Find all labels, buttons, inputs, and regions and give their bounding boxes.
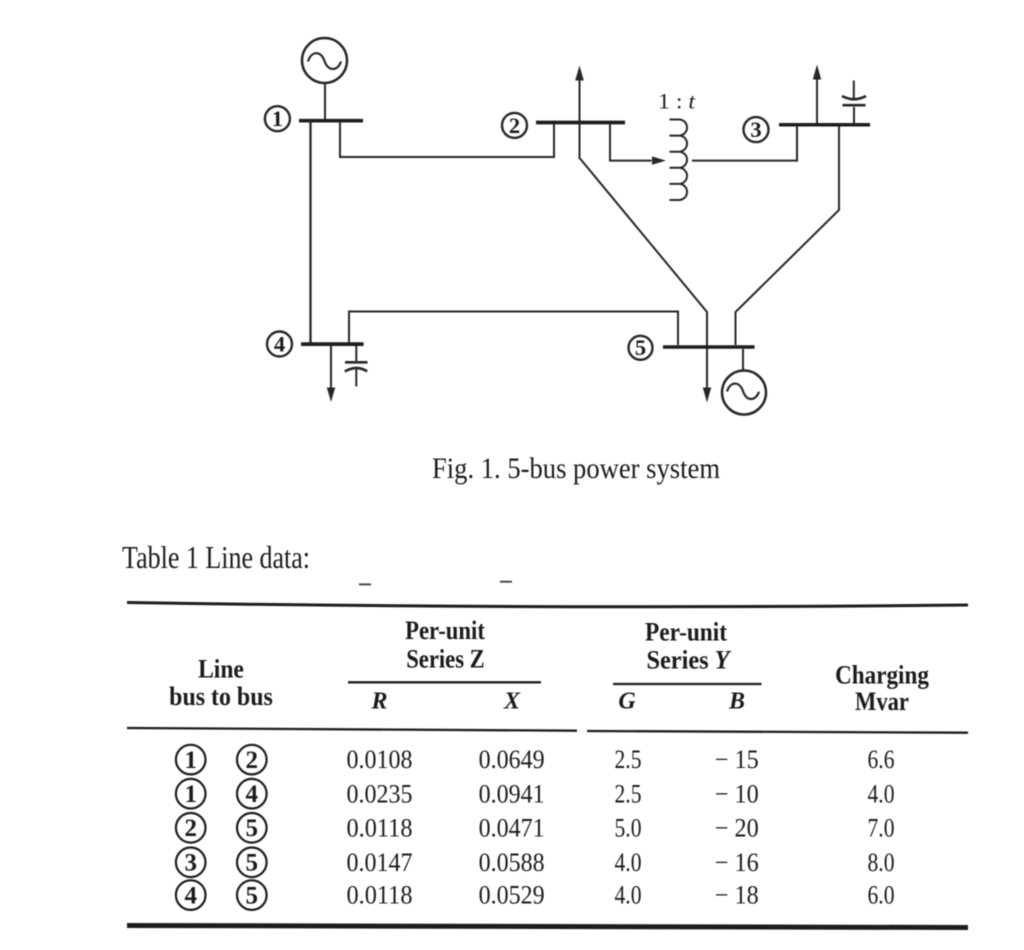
svg-text:6.0: 6.0 xyxy=(868,881,895,910)
table header text xyxy=(169,616,929,716)
svg-text:bus to bus: bus to bus xyxy=(169,682,273,711)
table top rule xyxy=(127,603,968,607)
svg-text:2: 2 xyxy=(246,747,259,774)
bus 1 bar xyxy=(299,119,363,123)
load arrow at bus 5 xyxy=(703,388,711,403)
svg-text:− 10: − 10 xyxy=(715,779,759,808)
svg-text:− 20: − 20 xyxy=(715,813,759,842)
svg-text:7.0: 7.0 xyxy=(868,813,895,842)
load arrow at bus 3 xyxy=(813,65,821,124)
svg-text:X: X xyxy=(503,689,521,715)
shunt capacitor at bus 4 xyxy=(345,346,368,387)
svg-text:R: R xyxy=(370,689,387,715)
svg-text:− 18: − 18 xyxy=(715,881,759,910)
svg-text:− 16: − 16 xyxy=(715,848,759,877)
svg-text:4.0: 4.0 xyxy=(868,779,895,808)
svg-text:0.0147: 0.0147 xyxy=(347,848,413,877)
wire line 2-5 (bus 2 diagonal down to bus 5) xyxy=(580,159,707,388)
node label circle bus 4 xyxy=(267,332,292,357)
table header rule left segment xyxy=(127,728,577,731)
svg-text:5: 5 xyxy=(635,335,646,360)
svg-text:0.0108: 0.0108 xyxy=(347,745,413,774)
table body bus-pair circles xyxy=(176,745,267,910)
svg-text:Per-unit: Per-unit xyxy=(405,616,485,645)
svg-text:Mvar: Mvar xyxy=(855,687,909,716)
svg-text:8.0: 8.0 xyxy=(868,848,895,877)
wire line 1-4 (bus 1 down to bus 4) xyxy=(309,121,311,343)
svg-text:2: 2 xyxy=(184,815,197,842)
svg-text:0.0118: 0.0118 xyxy=(347,881,413,910)
svg-text:3: 3 xyxy=(750,117,761,142)
stray scan dash right xyxy=(500,581,512,583)
bus 2 bar xyxy=(536,121,625,125)
svg-text:0.0588: 0.0588 xyxy=(479,848,545,877)
svg-text:B: B xyxy=(728,689,745,715)
svg-text:− 15: − 15 xyxy=(715,745,759,774)
svg-text:4: 4 xyxy=(274,331,285,356)
svg-text:4.0: 4.0 xyxy=(615,848,642,877)
Series Y underline xyxy=(613,683,762,685)
svg-text:3: 3 xyxy=(184,850,197,877)
svg-text:0.0118: 0.0118 xyxy=(347,813,413,842)
bus 5 bar xyxy=(663,345,755,349)
table header rule right segment xyxy=(587,731,968,733)
svg-text:1 : t: 1 : t xyxy=(658,89,696,114)
svg-text:Per-unit: Per-unit xyxy=(645,617,727,646)
svg-text:2.5: 2.5 xyxy=(615,745,642,774)
svg-text:4.0: 4.0 xyxy=(615,881,642,910)
table bottom rule xyxy=(127,926,968,928)
svg-text:Fig. 1. 5-bus power system: Fig. 1. 5-bus power system xyxy=(432,452,720,485)
bus 4 bar xyxy=(301,342,364,346)
wire line 3-5 (bus 3 down to bus 5) xyxy=(736,127,840,346)
table body text rows xyxy=(184,745,894,910)
wire line 1-2 (bus 1 to bus 2) xyxy=(340,121,554,157)
generator G5 at bus 5 xyxy=(722,349,766,415)
Series Z underline xyxy=(348,681,541,683)
wire generator G1 lead to bus 1 xyxy=(324,83,326,119)
svg-text:1: 1 xyxy=(184,781,197,808)
node label circle bus 2 xyxy=(502,113,527,138)
TABLE RULES xyxy=(127,582,968,928)
bus 3 bar xyxy=(779,123,870,127)
transformer T1 winding coil xyxy=(670,120,688,201)
SCHEMATIC: 5-bus power system one-line diagram xyxy=(265,38,870,415)
svg-text:2: 2 xyxy=(509,113,520,138)
svg-text:Series Z: Series Z xyxy=(406,644,485,673)
svg-text:0.0235: 0.0235 xyxy=(347,779,413,808)
stray scan dash left xyxy=(359,583,371,585)
svg-text:1: 1 xyxy=(184,747,197,774)
wire transformer to bus 3 xyxy=(692,126,797,161)
svg-text:Line: Line xyxy=(198,655,244,684)
node label circle bus 5 xyxy=(629,336,653,360)
shunt capacitor at bus 3 xyxy=(842,81,866,124)
load arrow at bus 4 xyxy=(327,346,335,402)
svg-text:0.0529: 0.0529 xyxy=(479,881,545,910)
svg-text:5.0: 5.0 xyxy=(615,813,642,842)
svg-text:6.6: 6.6 xyxy=(868,745,895,774)
svg-text:5: 5 xyxy=(246,882,259,909)
svg-text:Series Y: Series Y xyxy=(647,645,732,674)
load arrow at bus 2 xyxy=(575,66,584,160)
svg-text:5: 5 xyxy=(246,850,259,877)
svg-text:5: 5 xyxy=(246,815,259,842)
node label circle bus 3 xyxy=(744,117,769,142)
wire bus 2 to transformer tap with arrowhead xyxy=(610,124,666,165)
svg-text:0.0941: 0.0941 xyxy=(479,779,545,808)
svg-text:4: 4 xyxy=(184,882,197,909)
wire line 4-5 (bus 4 to bus 5) xyxy=(349,312,678,346)
svg-text:1: 1 xyxy=(272,106,283,131)
svg-text:2.5: 2.5 xyxy=(615,779,642,808)
svg-text:0.0649: 0.0649 xyxy=(479,745,545,774)
svg-text:Table 1 Line data:: Table 1 Line data: xyxy=(122,539,310,575)
svg-text:G: G xyxy=(618,689,636,715)
svg-text:4: 4 xyxy=(246,781,259,808)
generator G1 at bus 1 xyxy=(302,38,347,83)
node label circle bus 1 xyxy=(265,106,290,131)
svg-text:Charging: Charging xyxy=(835,661,929,690)
svg-text:0.0471: 0.0471 xyxy=(479,813,545,842)
